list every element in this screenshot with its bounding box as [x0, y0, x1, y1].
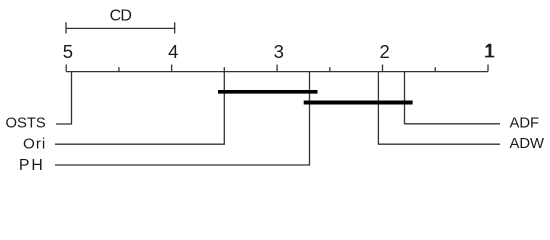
- minor tick 1.5: [434, 67, 436, 71]
- CD bracket left tick: [65, 22, 67, 33]
- svg-text:ADF: ADF: [510, 116, 540, 132]
- major tick 3: [276, 65, 278, 72]
- svg-text:CD: CD: [110, 8, 132, 25]
- ADF drop line: [405, 72, 501, 124]
- major tick 1: [487, 65, 489, 72]
- svg-text:5: 5: [63, 41, 73, 62]
- svg-text:OSTS: OSTS: [6, 115, 46, 131]
- OSTS drop line: [56, 72, 72, 124]
- minor tick 3.5: [223, 67, 225, 71]
- CD bracket line: [66, 27, 175, 29]
- svg-text:2: 2: [379, 41, 389, 62]
- axis label 1: [485, 44, 494, 58]
- minor tick 2.5: [329, 67, 331, 71]
- CD bracket right tick: [174, 22, 176, 33]
- axis line: [66, 71, 488, 73]
- svg-text:ADW: ADW: [510, 136, 545, 152]
- svg-text:3: 3: [274, 41, 284, 62]
- major tick 2: [382, 65, 384, 72]
- ADW drop line: [378, 72, 500, 145]
- clique bar Ori-PH: [218, 90, 318, 94]
- clique bar PH-ADW-ADF: [304, 101, 413, 105]
- PH drop line: [55, 72, 310, 165]
- svg-text:PH: PH: [19, 157, 45, 174]
- minor tick 4.5: [118, 67, 120, 71]
- svg-text:4: 4: [168, 41, 178, 62]
- svg-text:Ori: Ori: [23, 135, 46, 152]
- major tick 4: [171, 65, 173, 72]
- major tick 5: [65, 65, 67, 72]
- Ori drop line: [55, 72, 224, 145]
